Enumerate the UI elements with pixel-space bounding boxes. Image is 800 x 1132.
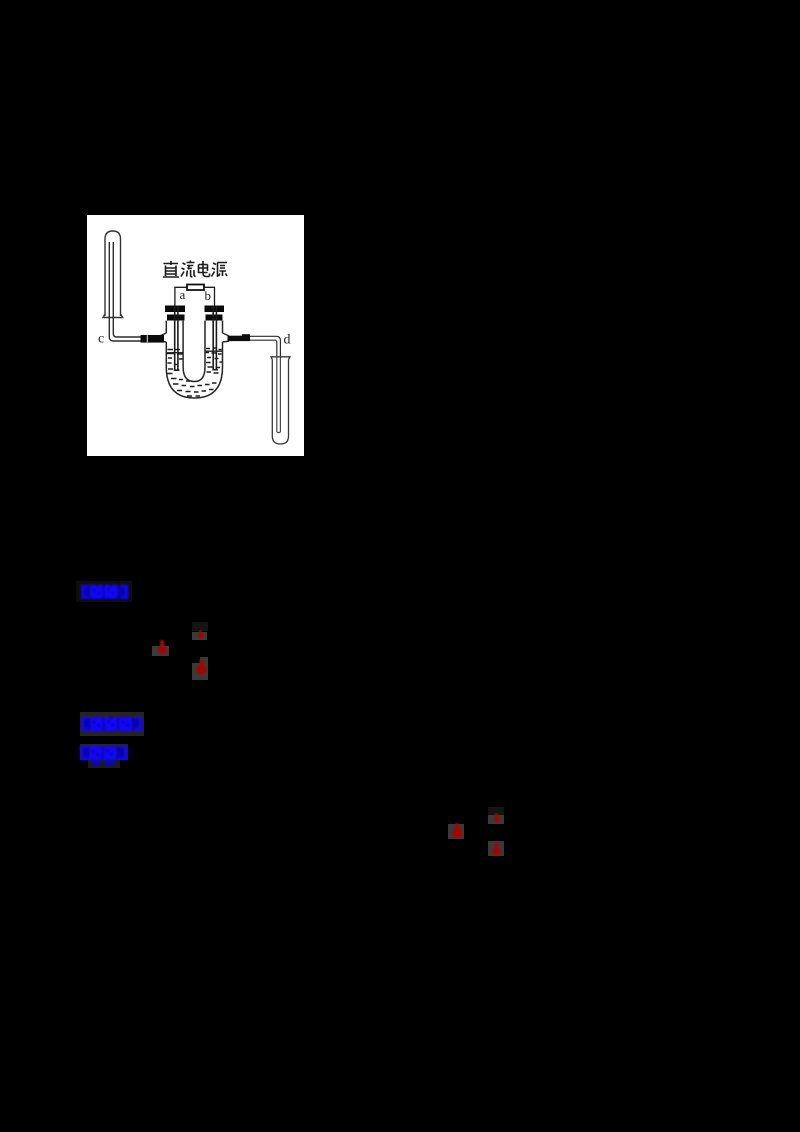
源	[212, 263, 228, 278]
wires and battery	[175, 287, 215, 305]
svg-text:d: d	[284, 333, 291, 348]
equation 1: gray highlight box, left arrow	[152, 646, 169, 655]
svg-text:b: b	[205, 288, 212, 303]
blue heading 解答 text	[78, 743, 132, 769]
blue heading 解答 lower sub-box	[88, 760, 120, 768]
blue heading 分析 text	[79, 582, 133, 602]
electrodes	[174, 306, 218, 371]
battery / DC source box	[187, 285, 204, 291]
equation 1: dark selection box above upper gas-arrow	[192, 622, 208, 631]
直	[163, 261, 179, 277]
equation 1: gray highlight box, upper-right arrow	[192, 632, 208, 640]
equation 2: red gas arrows (H2 and O2)	[445, 803, 507, 861]
blue heading 知识点 highlight box	[80, 712, 145, 736]
stopper right	[205, 306, 225, 313]
equation 2: gray highlight box, upper-right arrow	[488, 815, 504, 824]
equation 1: red gas arrows (H2 and O2)	[149, 618, 214, 684]
equation 2: gray highlight box, left arrow	[448, 824, 464, 840]
电	[199, 261, 210, 277]
svg-text:a: a	[180, 287, 186, 302]
left inverted gas tube	[105, 231, 121, 316]
equation 1: gray highlight box, lower-right arrow	[192, 663, 208, 680]
stopper left	[165, 306, 185, 313]
流	[181, 261, 196, 278]
rubber connector right	[228, 336, 251, 341]
right horizontal tube to d	[250, 336, 280, 432]
liquid dashes in U-tube	[167, 348, 222, 396]
side nozzles	[160, 333, 229, 342]
blue heading 解答 highlight box	[80, 744, 128, 760]
blue heading 分析 faint box	[76, 581, 132, 602]
left tube mouth rim	[103, 314, 123, 318]
直流电源 label drawn as strokes	[163, 261, 227, 278]
rubber connector left	[141, 335, 165, 343]
svg-text:c: c	[98, 332, 104, 347]
right test tube	[271, 357, 290, 444]
U-tube body	[166, 321, 222, 398]
equation 2: dark selection box above upper gas-arrow	[488, 807, 504, 815]
blue heading 知识点 text	[79, 714, 145, 734]
equation 2: gray highlight box, lower-right arrow	[488, 841, 504, 857]
equation 1: gray highlight box notch, lower-right	[200, 657, 209, 664]
delivery tube in left tube	[109, 242, 141, 341]
diagram: electrolysis apparatus image	[87, 215, 304, 456]
